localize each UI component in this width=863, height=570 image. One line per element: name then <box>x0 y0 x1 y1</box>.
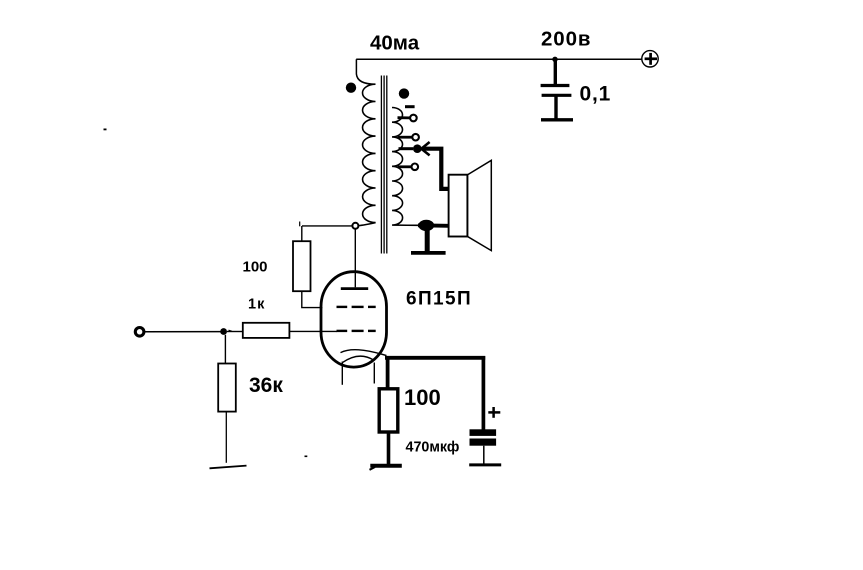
svg-text:40ма: 40ма <box>370 32 420 55</box>
input terminal <box>135 328 144 337</box>
tap terminal 2 <box>398 134 419 141</box>
resistor R1 1к <box>227 323 289 338</box>
tube screen grid <box>337 306 376 308</box>
svg-text:6П15П: 6П15П <box>406 289 472 310</box>
wiper arrow and wire to speaker <box>421 142 449 189</box>
ground under 36к <box>210 466 247 469</box>
wire anode lead <box>354 229 356 287</box>
speaker LS1 <box>449 160 492 250</box>
ground under R4 <box>370 466 402 470</box>
label 0,1 <box>580 83 612 106</box>
label 200в <box>541 28 591 51</box>
node anode junction <box>352 223 358 229</box>
tap wiper dot <box>399 144 422 153</box>
svg-text:470мкф: 470мкф <box>406 440 460 456</box>
tap terminal 3 <box>398 164 419 171</box>
node input junction <box>220 328 232 335</box>
tube control grid <box>337 330 376 332</box>
ground under speaker junction <box>411 229 446 253</box>
wire input <box>145 331 221 333</box>
ground under C1 <box>541 118 573 121</box>
capacitor C1 0,1 <box>541 59 572 118</box>
node 200в <box>552 57 557 62</box>
ground under C2 <box>469 463 501 466</box>
resistor R4 100 cathode <box>379 389 398 464</box>
label plus <box>488 407 500 418</box>
label 6П15П <box>406 289 472 310</box>
terminal B+ plus <box>642 51 658 67</box>
node secondary bottom junction <box>418 220 449 231</box>
wire cathode <box>385 356 485 390</box>
resistor R3 36к <box>218 335 236 463</box>
resistor R2 100 screen <box>293 226 323 308</box>
transformer T1 primary winding <box>356 84 376 226</box>
svg-text:1к: 1к <box>248 297 265 313</box>
tube V1 6П15П envelope <box>321 272 387 367</box>
wire B+ rail <box>356 58 641 60</box>
polarity dot primary <box>346 83 356 93</box>
label 1к <box>248 297 265 313</box>
label 470мкф <box>406 440 460 456</box>
label 100 cathode <box>404 385 441 410</box>
label 100 screen <box>243 259 268 276</box>
wire junction to screen resistor <box>300 222 353 227</box>
svg-text:36к: 36к <box>249 374 283 397</box>
svg-text:100: 100 <box>243 259 268 276</box>
wire anode to transformer entry <box>356 59 375 84</box>
tube heater leads <box>342 362 374 385</box>
tube cathode <box>341 350 387 363</box>
transformer core <box>381 76 386 254</box>
wire to 470мкф <box>482 356 486 431</box>
svg-text:0,1: 0,1 <box>580 83 612 106</box>
tube anode plate <box>341 287 368 290</box>
label 40ма <box>370 32 420 55</box>
svg-text:100: 100 <box>404 385 441 410</box>
svg-text:200в: 200в <box>541 28 591 51</box>
tap terminal 1 <box>398 115 417 122</box>
transformer T1 secondary winding <box>392 107 419 226</box>
label 36к <box>249 374 283 397</box>
capacitor C2 470мкф <box>470 429 497 464</box>
wire grid <box>289 330 337 332</box>
polarity dot secondary <box>399 88 409 98</box>
